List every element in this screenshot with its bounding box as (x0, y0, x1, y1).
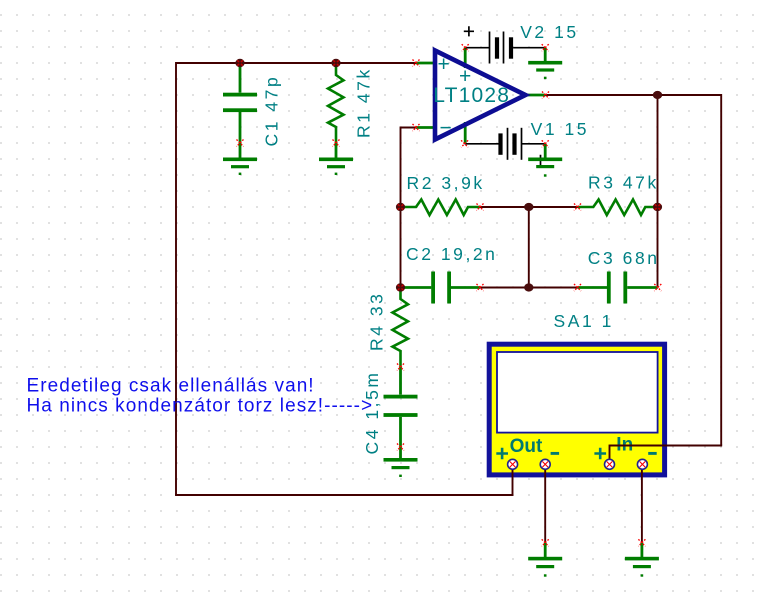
svg-text:V1 15: V1 15 (531, 119, 589, 139)
pin marker R3 left (574, 204, 581, 211)
svg-text:C3 68n: C3 68n (588, 248, 660, 268)
annotation blue text (27, 376, 374, 417)
wire R2 right to node B (480, 206, 529, 208)
pin marker C3 left (574, 284, 581, 291)
pin marker op-amp +in (413, 60, 420, 67)
pin marker R1 bottom (333, 140, 340, 147)
svg-text:Ha nincs kondenzátor torz lesz: Ha nincs kondenzátor torz lesz!-----> (27, 396, 374, 417)
capacitor C2 (401, 272, 481, 304)
resistor R3 (578, 200, 658, 216)
resistor R1 (328, 63, 344, 143)
pin marker op-amp +V / V2 left (462, 44, 469, 51)
pin marker V1 right (542, 140, 549, 147)
wire node B2 to C3 left (529, 287, 578, 289)
pin marker C1 bottom (237, 140, 244, 147)
pin marker op-amp output (542, 92, 549, 99)
terminal circles SA1 (508, 459, 648, 469)
svg-text:R1 47k: R1 47k (354, 67, 374, 138)
svg-text:+: + (438, 53, 450, 76)
pin marker C4 bottom (397, 444, 404, 451)
pin marker Out- ground (542, 539, 549, 546)
wire node B to R3 left (529, 206, 578, 208)
pin marker V2 right (542, 44, 549, 51)
pin marker op-amp -in (413, 124, 420, 131)
wire left vertical side (175, 62, 177, 495)
wire op-amp output to right corner (546, 94, 722, 96)
svg-text:SA1 1: SA1 1 (554, 311, 614, 331)
wire C2 right to node B2 (480, 287, 529, 289)
wire SA1 In- to ground (641, 464, 643, 543)
svg-text:Out: Out (510, 436, 543, 457)
signal analyzer SA1 (489, 344, 664, 475)
pin marker C2 right (477, 284, 484, 291)
ground for V2 (528, 48, 562, 79)
svg-text:R3 47k: R3 47k (588, 173, 659, 193)
wire outer right vertical (720, 94, 722, 445)
ground for C1 (223, 143, 257, 175)
capacitor C3 (578, 272, 658, 304)
pin marker op-amp -V / V1 left (461, 140, 468, 147)
ground for V1 (528, 144, 562, 177)
svg-text:C1 47p: C1 47p (262, 75, 282, 147)
node junction dot at node B2 (524, 283, 533, 291)
ground for SA1 Out- (528, 543, 562, 577)
wire bottom horizontal to SA1 Out+ (175, 494, 512, 496)
pin marker C3 right (654, 284, 661, 291)
wire inverting input to node A (401, 128, 417, 288)
op-amp U1 LT1028 (416, 48, 546, 144)
pin marker R2 right (477, 204, 484, 211)
svg-text:C2 19,2n: C2 19,2n (406, 244, 497, 264)
node junction node A2 / C2 left (396, 283, 405, 291)
wire node B vertical (528, 207, 530, 288)
svg-text:R2 3,9k: R2 3,9k (407, 173, 485, 193)
node junction R1 top (331, 59, 340, 67)
svg-text:LT1028: LT1028 (433, 84, 510, 107)
wire top from left corner to op-amp non-inverting input (176, 62, 416, 64)
battery V2 (464, 26, 545, 63)
node junction node A / R2 left (396, 203, 405, 211)
pin marker R4 bottom / C4 top (397, 364, 404, 371)
capacitor C4 (384, 367, 418, 447)
node junction R3 right (653, 203, 662, 211)
node junction C1 top (235, 59, 244, 67)
capacitor C1 (223, 63, 257, 143)
ground for SA1 In- (625, 543, 659, 577)
battery V1 (465, 128, 546, 165)
svg-text:V2 15: V2 15 (520, 22, 578, 42)
svg-text:Eredetileg csak ellenállás van: Eredetileg csak ellenállás van! (27, 376, 315, 397)
wire SA1 In+ drop (609, 445, 611, 464)
wire SA1 Out+ drop (512, 464, 514, 496)
wire feedback vertical from output node down to C3 right (657, 95, 659, 288)
node junction dot at output (653, 91, 662, 99)
node junction dot at node B (524, 203, 533, 211)
svg-text:R4 33: R4 33 (367, 292, 387, 351)
resistor R2 (401, 200, 481, 216)
ground for C4 (384, 447, 418, 477)
ground for R1 (319, 143, 353, 175)
pin marker In- ground (638, 539, 645, 546)
svg-text:−: − (440, 117, 452, 140)
wire SA1 Out- to ground (544, 464, 546, 543)
wire to SA1 In+ horizontal (610, 445, 723, 447)
resistor R4 (393, 288, 409, 368)
